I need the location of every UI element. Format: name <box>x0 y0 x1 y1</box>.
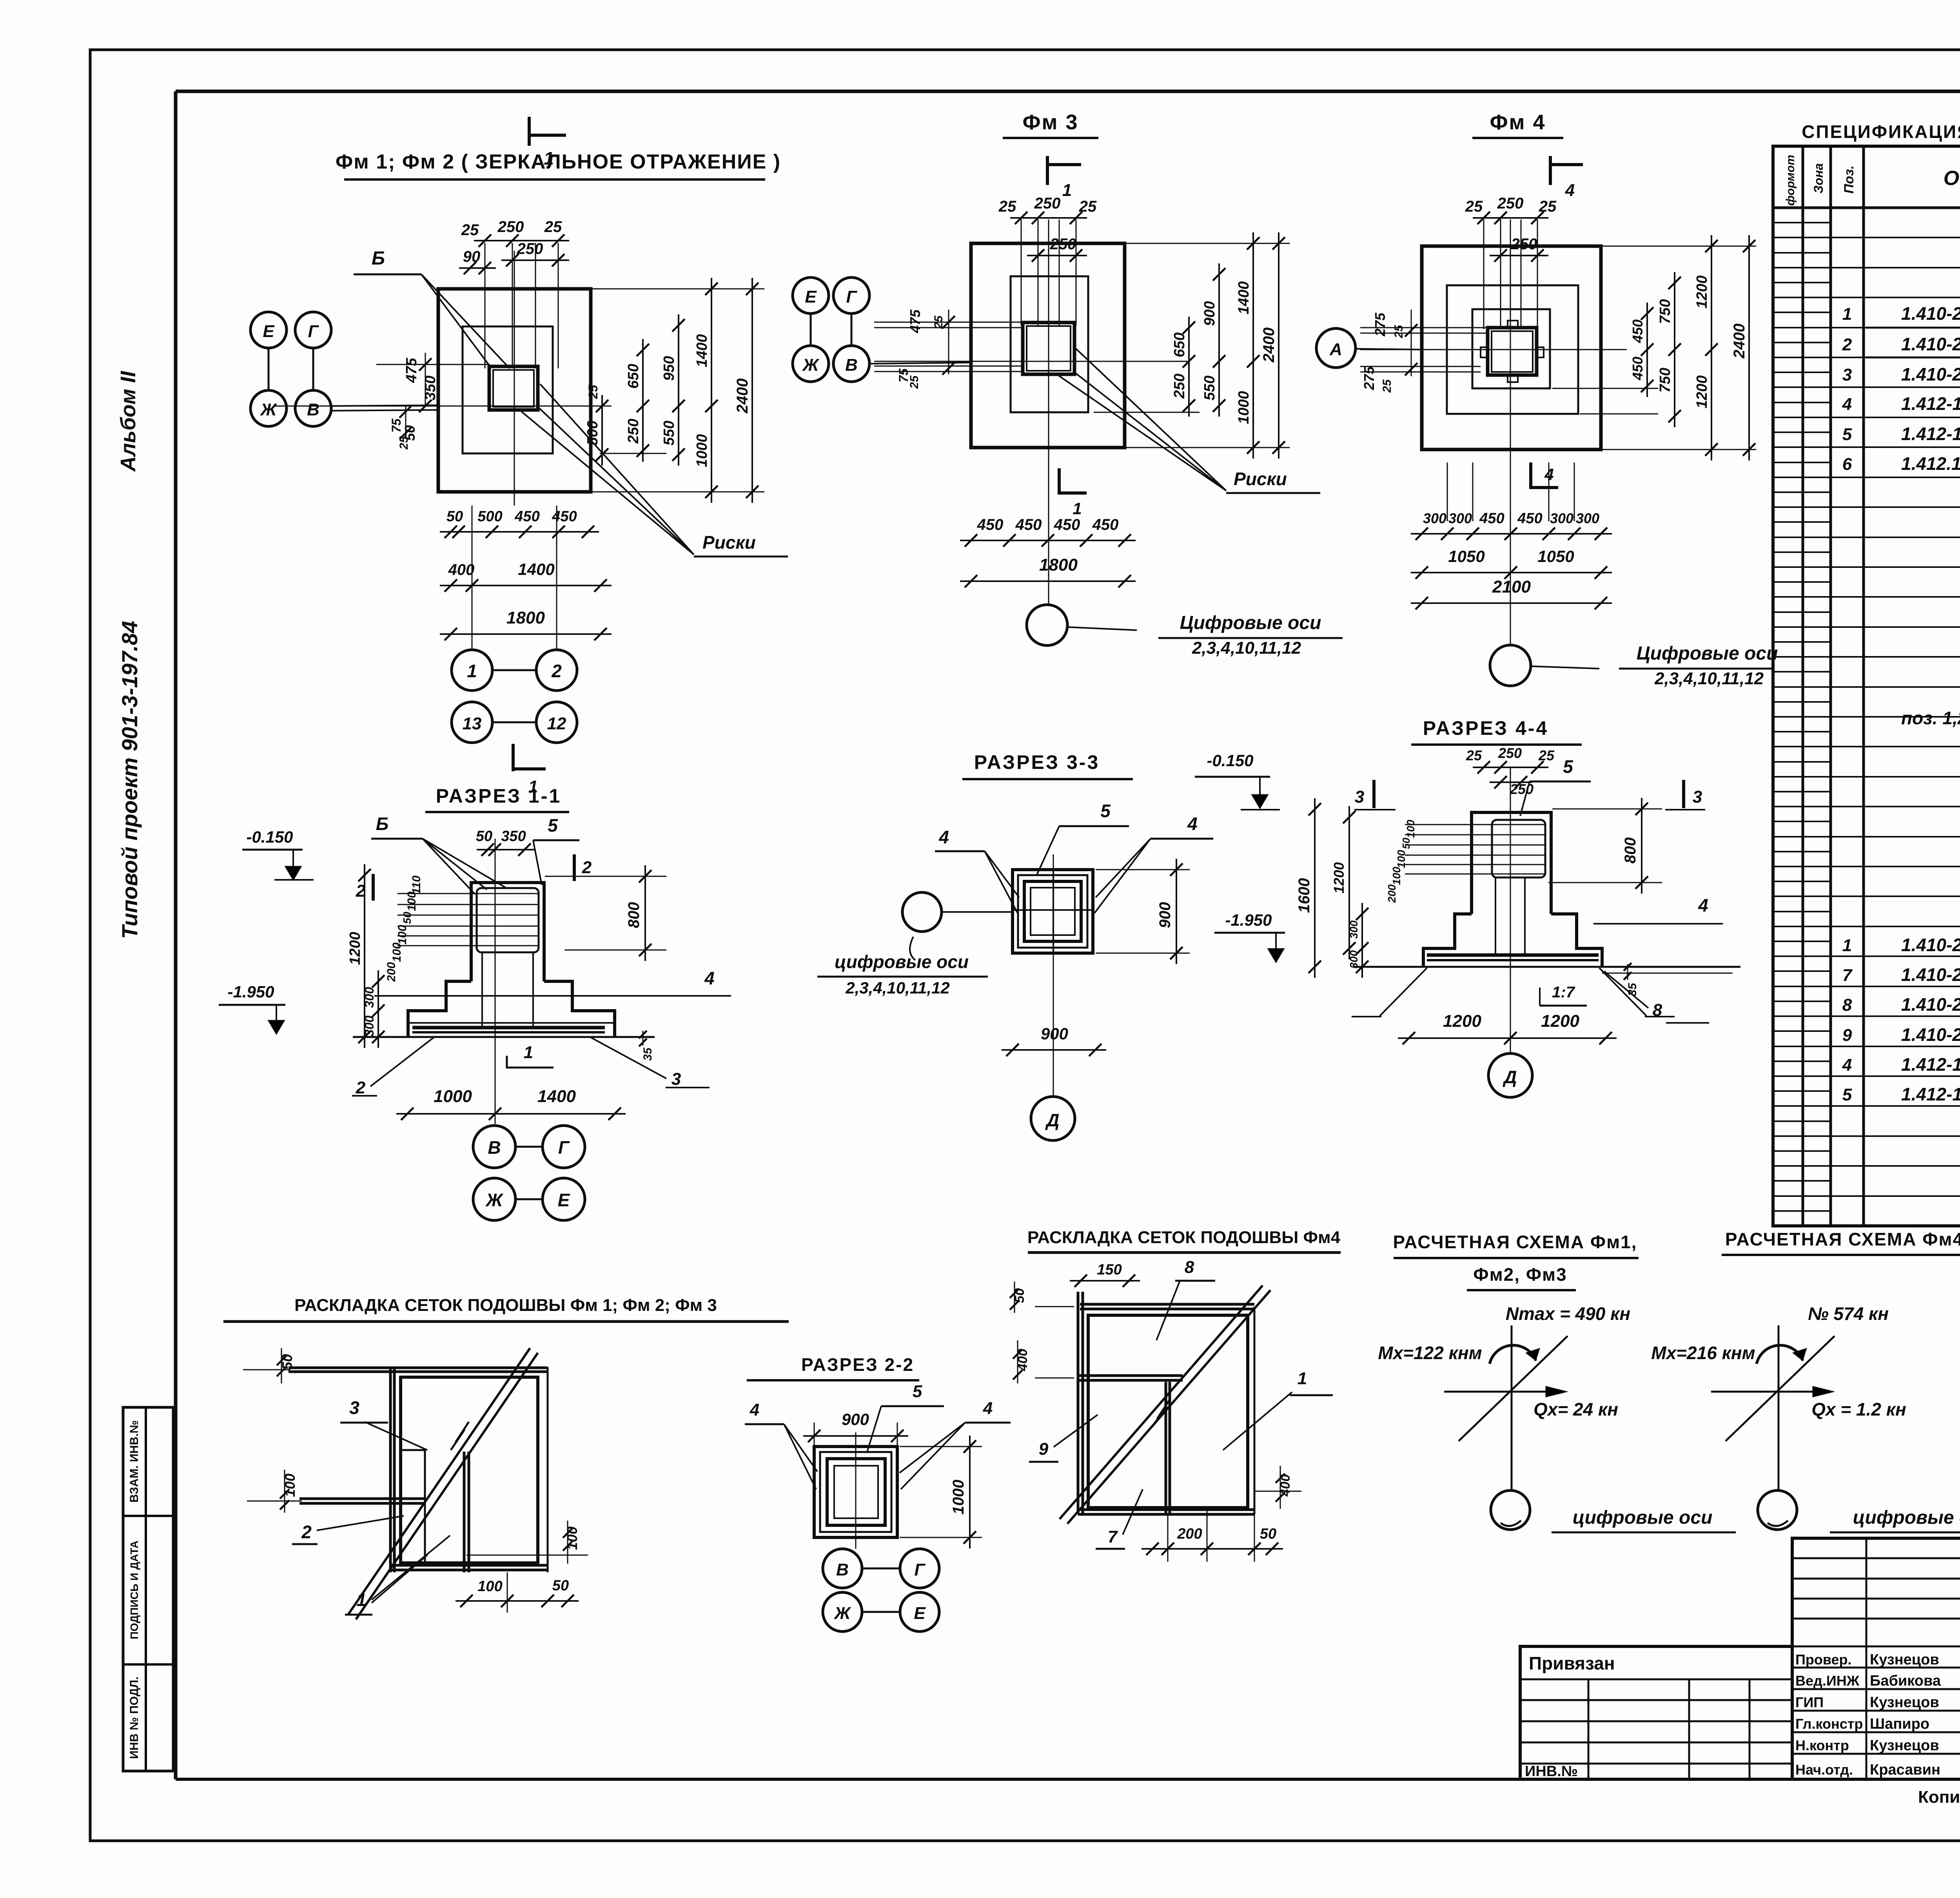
plan Fm4 bottom axis circle <box>1490 643 1778 688</box>
title block left part Privyazan <box>1520 1646 1792 1780</box>
plan Fm3 section mark top <box>1047 156 1081 200</box>
svg-text:25: 25 <box>586 384 600 399</box>
section 4-4 rebar cage <box>1405 820 1545 954</box>
section 1-1 rebar cage <box>397 888 539 1026</box>
calc scheme Fm4 title <box>1722 1229 1960 1255</box>
svg-text:3: 3 <box>671 1070 681 1089</box>
svg-text:100: 100 <box>1405 819 1417 838</box>
svg-text:9: 9 <box>1842 1026 1852 1045</box>
svg-text:Г: Г <box>846 287 857 306</box>
svg-text:1400: 1400 <box>1236 281 1252 315</box>
svg-text:7: 7 <box>1842 966 1853 985</box>
plan Fm3 axes <box>874 219 1188 605</box>
section 3-3 leaders 4 <box>935 814 1213 913</box>
svg-text:450: 450 <box>552 508 577 525</box>
svg-text:Г: Г <box>914 1560 926 1579</box>
svg-text:Нач.отд.: Нач.отд. <box>1795 1762 1853 1778</box>
svg-text:Н.контр: Н.контр <box>1795 1737 1849 1753</box>
svg-text:Ж: Ж <box>485 1190 504 1210</box>
mesh layout Fm1-3 break line <box>348 1348 538 1619</box>
stamp strip boxes <box>123 1407 173 1771</box>
svg-text:450: 450 <box>977 516 1004 533</box>
plan Fm1 section mark 1 top <box>529 117 566 169</box>
svg-text:Поз.: Поз. <box>1842 165 1857 194</box>
svg-text:-0.150: -0.150 <box>246 828 293 846</box>
svg-text:250: 250 <box>1511 236 1537 253</box>
svg-text:1400: 1400 <box>537 1087 576 1106</box>
plan Fm1 column <box>489 366 538 410</box>
svg-text:Mx=122 кнм: Mx=122 кнм <box>1378 1343 1482 1363</box>
svg-text:13: 13 <box>463 714 482 733</box>
plan Fm3 column <box>1023 323 1074 374</box>
svg-text:Е: Е <box>914 1604 926 1623</box>
section 1-1 leader 1 bracket <box>507 1043 554 1068</box>
svg-text:1: 1 <box>544 148 554 169</box>
svg-text:300: 300 <box>362 987 376 1008</box>
svg-text:4: 4 <box>983 1399 993 1418</box>
calc scheme Fm1-3 title <box>1393 1232 1639 1290</box>
plan Fm1 axes <box>274 251 612 506</box>
calc scheme Fm1-3 diagram <box>1378 1303 1736 1532</box>
svg-text:Кузнецов: Кузнецов <box>1870 1737 1939 1754</box>
svg-text:200: 200 <box>1177 1526 1202 1542</box>
svg-text:1: 1 <box>356 1590 367 1610</box>
svg-text:5: 5 <box>1842 1085 1852 1104</box>
svg-text:РАСКЛАДКА СЕТОК ПОДОШВЫ Фм4: РАСКЛАДКА СЕТОК ПОДОШВЫ Фм4 <box>1027 1228 1341 1247</box>
section 1-1 level -1.950 <box>219 983 285 1034</box>
section 1-1 marks 2 <box>356 854 592 901</box>
svg-text:Типовой проект 901-3-197.84: Типовой проект 901-3-197.84 <box>117 621 142 939</box>
svg-text:50: 50 <box>552 1577 569 1594</box>
mesh layout Fm1-3 sheet 3 outline <box>289 1367 548 1572</box>
svg-text:50: 50 <box>446 508 463 525</box>
plan Fm3 anchor lines <box>1021 219 1076 325</box>
svg-text:4: 4 <box>1544 465 1553 484</box>
svg-text:Шапиро: Шапиро <box>1870 1716 1929 1732</box>
svg-text:25: 25 <box>998 198 1016 215</box>
svg-text:5: 5 <box>548 815 558 836</box>
svg-text:1.412-1/77: 1.412-1/77 <box>1901 1054 1960 1075</box>
section 3-3 bottom dim 900 <box>1002 1024 1106 1056</box>
mesh layout Fm1-3 leaders <box>292 1398 450 1615</box>
svg-text:25: 25 <box>1465 198 1483 215</box>
svg-text:50: 50 <box>1400 838 1412 849</box>
mesh layout Fm1-3 inner bars <box>299 1367 548 1572</box>
svg-text:25: 25 <box>1381 379 1394 393</box>
svg-text:2,3,4,10,11,12: 2,3,4,10,11,12 <box>1192 638 1301 658</box>
svg-text:Б: Б <box>376 814 389 834</box>
mesh layout Fm1-3 dims <box>243 1348 588 1613</box>
svg-text:100: 100 <box>396 925 409 944</box>
svg-text:Mx=216 кнм: Mx=216 кнм <box>1651 1343 1755 1363</box>
section 3-3 leader 5 <box>1037 801 1129 875</box>
svg-text:2400: 2400 <box>734 379 751 414</box>
svg-text:25: 25 <box>1539 198 1557 215</box>
section 4-4 steps and slab <box>1352 914 1740 973</box>
plan Fm1 middle step <box>463 326 553 453</box>
svg-text:Обозначение: Обозначение <box>1944 167 1960 190</box>
svg-text:Бабикова: Бабикова <box>1870 1673 1941 1689</box>
svg-text:1.412.1-4.060: 1.412.1-4.060 <box>1901 453 1960 474</box>
svg-text:1200: 1200 <box>347 932 363 965</box>
section 2-2 axis <box>855 1432 857 1549</box>
svg-text:2100: 2100 <box>1492 577 1531 596</box>
svg-text:ВЗАМ. ИНВ.№: ВЗАМ. ИНВ.№ <box>128 1420 141 1503</box>
svg-text:1200: 1200 <box>1443 1012 1481 1031</box>
svg-text:200: 200 <box>385 962 398 982</box>
svg-text:100: 100 <box>390 943 403 962</box>
svg-text:1.410-2: 1.410-2 <box>1901 935 1960 955</box>
plan Fm4 title <box>1472 111 1563 138</box>
svg-text:25: 25 <box>1466 747 1482 763</box>
section 4-4 slope label 1:7 <box>1540 984 1587 1006</box>
svg-text:450: 450 <box>1479 510 1504 527</box>
svg-text:№ 574 кн: № 574 кн <box>1808 1303 1889 1324</box>
svg-text:Кузнецов: Кузнецов <box>1870 1694 1939 1711</box>
svg-text:Копир:зал: Коршунова: Копир:зал: Коршунова <box>1918 1787 1960 1807</box>
svg-text:Б: Б <box>372 248 385 269</box>
section 1-1 vertical axis <box>495 839 496 1124</box>
svg-text:300: 300 <box>1576 510 1599 526</box>
svg-text:В: В <box>845 355 858 375</box>
calc scheme Fm4 diagram <box>1651 1303 1960 1532</box>
svg-text:8: 8 <box>1842 995 1852 1015</box>
svg-text:цифровые оси: цифровые оси <box>1853 1507 1960 1528</box>
svg-text:1200: 1200 <box>1694 375 1710 409</box>
svg-text:Ж: Ж <box>260 400 278 419</box>
svg-text:2: 2 <box>356 1078 366 1097</box>
section 4-4 dim 35 <box>1624 963 1639 996</box>
section 1-1 leader 3 <box>590 1037 710 1089</box>
section 1-1 level -0.150 <box>242 828 314 880</box>
spec table title <box>1802 121 1960 142</box>
section 4-4 axis circle D <box>1488 1053 1532 1097</box>
mesh layout Fm1-3 title <box>223 1296 789 1322</box>
spec table grid <box>1773 146 1960 1226</box>
mesh layout Fm4 break line <box>1060 1285 1270 1524</box>
plan Fm4 inner step <box>1472 309 1550 388</box>
svg-text:В: В <box>836 1560 849 1579</box>
svg-text:1000: 1000 <box>1236 391 1252 424</box>
svg-text:75: 75 <box>389 418 403 433</box>
svg-text:2: 2 <box>301 1522 312 1542</box>
svg-text:2,3,4,10,11,12: 2,3,4,10,11,12 <box>845 979 949 997</box>
mesh layout Fm4 sheet outlines <box>1078 1292 1254 1514</box>
section 4-4 level -0.150 <box>1195 751 1280 810</box>
plan Fm4 footing outline <box>1422 246 1601 450</box>
mesh layout Fm4 title <box>1027 1228 1341 1253</box>
plan Fm4 left beam lines <box>1360 328 1488 372</box>
svg-text:7: 7 <box>1108 1527 1118 1546</box>
svg-text:4: 4 <box>750 1400 759 1419</box>
svg-text:Qx = 1.2 кн: Qx = 1.2 кн <box>1811 1399 1906 1419</box>
svg-text:650: 650 <box>625 364 642 388</box>
plan Fm3 bottom dims <box>960 516 1136 587</box>
svg-text:35: 35 <box>641 1047 654 1061</box>
plan Fm4 column with tabs <box>1481 321 1544 382</box>
svg-text:1200: 1200 <box>1541 1012 1579 1031</box>
svg-text:1.410-2: 1.410-2 <box>1901 334 1960 354</box>
section 2-2 right dim 1000 <box>900 1436 982 1548</box>
svg-text:5: 5 <box>1563 756 1573 777</box>
svg-text:50: 50 <box>1260 1526 1276 1542</box>
svg-text:550: 550 <box>1201 375 1218 400</box>
svg-text:1000: 1000 <box>434 1087 472 1106</box>
plan Fm3 left small dims <box>897 309 955 389</box>
section 1-1 pedestal outline <box>471 883 544 981</box>
svg-text:1: 1 <box>1842 936 1852 955</box>
section 1-1 leader 5 <box>533 815 579 885</box>
svg-text:800: 800 <box>1622 838 1639 864</box>
svg-text:Г: Г <box>308 322 319 341</box>
svg-text:-1.950: -1.950 <box>1225 911 1272 929</box>
svg-text:250: 250 <box>1497 195 1524 212</box>
plan Fm4 top dims <box>1465 195 1557 262</box>
svg-text:1.410-2: 1.410-2 <box>1901 364 1960 384</box>
spec rows Fm4 group <box>1842 843 1960 1217</box>
spec table headers <box>1784 154 1960 206</box>
plan Fm3 title <box>1003 111 1098 138</box>
svg-text:100: 100 <box>1390 867 1403 885</box>
svg-text:Фм 1; Фм 2 ( ЗЕРКАЛЬНОЕ ОТРАЖ: Фм 1; Фм 2 ( ЗЕРКАЛЬНОЕ ОТРАЖЕНИЕ ) <box>336 150 781 173</box>
svg-text:1.412-1/77: 1.412-1/77 <box>1901 393 1960 414</box>
svg-text:А: А <box>1329 340 1342 359</box>
svg-text:1: 1 <box>1298 1369 1307 1388</box>
svg-text:Д: Д <box>1045 1110 1059 1130</box>
svg-text:ИНВ.№: ИНВ.№ <box>1525 1763 1578 1780</box>
plan Fm4 section mark bottom <box>1531 462 1558 489</box>
svg-text:8: 8 <box>1653 1001 1662 1020</box>
svg-text:300: 300 <box>1550 510 1573 526</box>
svg-text:3: 3 <box>1693 787 1702 807</box>
svg-text:1: 1 <box>1073 499 1082 518</box>
svg-text:Риски: Риски <box>702 532 756 553</box>
svg-text:Вед.ИНЖ: Вед.ИНЖ <box>1795 1673 1860 1689</box>
section 2-2 axis circles <box>823 1549 939 1632</box>
svg-text:1200: 1200 <box>1331 862 1347 894</box>
svg-text:4: 4 <box>1698 895 1708 915</box>
svg-text:2: 2 <box>1842 335 1852 354</box>
svg-text:Фм 4: Фм 4 <box>1490 111 1546 134</box>
svg-text:4: 4 <box>1187 814 1198 834</box>
svg-text:4: 4 <box>1842 395 1852 414</box>
svg-text:100: 100 <box>477 1578 502 1595</box>
svg-text:Гл.констр: Гл.констр <box>1795 1716 1863 1732</box>
plan Fm4 anchor lines <box>1484 219 1537 329</box>
svg-text:Зона: Зона <box>1811 163 1826 193</box>
plan Fm3 middle step <box>1011 276 1088 412</box>
svg-text:35: 35 <box>1626 983 1639 996</box>
svg-text:1800: 1800 <box>506 608 545 627</box>
svg-text:1400: 1400 <box>694 334 710 368</box>
svg-text:РАЗРЕЗ 3-3: РАЗРЕЗ 3-3 <box>974 751 1100 773</box>
section 4-4 leader 8 <box>1604 971 1709 1023</box>
svg-text:5: 5 <box>1842 425 1852 444</box>
svg-text:450: 450 <box>1630 319 1646 343</box>
svg-text:1.410-2: 1.410-2 <box>1901 1024 1960 1045</box>
svg-text:ГИП: ГИП <box>1795 1694 1824 1710</box>
svg-text:2400: 2400 <box>1731 324 1748 359</box>
svg-text:1800: 1800 <box>1039 555 1078 575</box>
svg-text:2400: 2400 <box>1260 328 1278 363</box>
stamp strip labels <box>128 1420 141 1759</box>
svg-text:300: 300 <box>1348 920 1360 939</box>
svg-text:2: 2 <box>551 661 562 681</box>
svg-text:1400: 1400 <box>518 560 554 578</box>
plan Fm3 right dim tiers <box>1094 232 1290 459</box>
plan Fm1 footing outline <box>438 289 591 492</box>
svg-text:4: 4 <box>1842 1055 1852 1075</box>
plan Fm1 axis circles 1 2 13 12 <box>452 650 577 743</box>
svg-text:900: 900 <box>1041 1024 1068 1043</box>
section 1-1 title <box>425 785 569 812</box>
section 2-2 leader 5 <box>867 1382 944 1452</box>
svg-text:1: 1 <box>1062 181 1072 200</box>
plan Fm1 left dims <box>376 353 490 450</box>
section 1-1 dim 35 <box>639 1031 654 1061</box>
svg-text:100: 100 <box>1395 850 1407 868</box>
svg-text:Цифровые оси: Цифровые оси <box>1180 613 1321 633</box>
section 2-2 title <box>747 1354 919 1380</box>
svg-text:4: 4 <box>704 968 715 988</box>
svg-text:300: 300 <box>362 1015 376 1037</box>
svg-text:цифровые оси: цифровые оси <box>1573 1507 1713 1528</box>
svg-text:450: 450 <box>1054 516 1080 533</box>
svg-text:1000: 1000 <box>694 434 710 468</box>
plan Fm3 footing outline <box>971 243 1125 448</box>
title block signature table <box>1792 1538 1960 1779</box>
svg-text:450: 450 <box>1517 510 1542 527</box>
svg-text:450: 450 <box>1092 516 1119 533</box>
plan Fm1 anchor bolt lines <box>485 243 558 368</box>
plan Fm1 bottom dims <box>440 506 612 650</box>
svg-text:РАЗРЕЗ 2-2: РАЗРЕЗ 2-2 <box>801 1354 914 1375</box>
svg-text:450: 450 <box>1630 357 1646 381</box>
section 4-4 bottom dims <box>1398 1012 1617 1044</box>
plan Fm3 section mark bottom <box>1059 468 1087 518</box>
section 4-4 left dims <box>1296 798 1417 978</box>
svg-text:800: 800 <box>625 902 642 928</box>
svg-text:-0.150: -0.150 <box>1207 751 1253 770</box>
svg-text:РАСЧЕТНАЯ СХЕМА Фм1,: РАСЧЕТНАЯ СХЕМА Фм1, <box>1393 1232 1637 1252</box>
section 1-1 axis circles V G Zh E <box>473 1126 585 1220</box>
svg-text:1: 1 <box>467 661 477 681</box>
svg-text:450: 450 <box>1015 516 1042 533</box>
section 2-2 leaders 4 <box>745 1399 1011 1489</box>
svg-text:6: 6 <box>1842 455 1852 474</box>
svg-text:Фм 3: Фм 3 <box>1022 111 1078 134</box>
svg-text:Альбом II: Альбом II <box>116 371 140 472</box>
svg-text:Риски: Риски <box>1234 469 1287 489</box>
svg-text:Ж: Ж <box>802 355 820 375</box>
spec rows Fm1;Fm2 group <box>1842 212 1960 593</box>
svg-text:1200: 1200 <box>1694 276 1710 309</box>
svg-text:25: 25 <box>1538 747 1555 763</box>
spec rows Fm3 group <box>1901 633 1960 792</box>
plan Fm1 section mark 1 bottom <box>513 744 546 796</box>
plan Fm1 Fm2 title <box>336 150 781 179</box>
section 3-3 mesh basket squares <box>1013 870 1093 953</box>
section 1-1 top dims 50 350 <box>476 828 535 856</box>
svg-text:Д: Д <box>1502 1067 1517 1087</box>
svg-text:В: В <box>488 1137 501 1158</box>
mesh layout Fm4 leaders <box>1029 1258 1333 1549</box>
svg-text:350: 350 <box>422 375 439 400</box>
svg-text:1.410-2: 1.410-2 <box>1901 303 1960 324</box>
svg-text:4: 4 <box>1565 181 1575 200</box>
plan Fm4 left small dims <box>1361 310 1417 393</box>
svg-text:Г: Г <box>558 1137 570 1158</box>
title block notes below <box>1918 1787 1960 1840</box>
svg-text:90: 90 <box>463 248 481 265</box>
section 1-1 bottom dims <box>396 1087 626 1120</box>
svg-text:РАЗРЕЗ 4-4: РАЗРЕЗ 4-4 <box>1423 717 1549 739</box>
svg-text:900: 900 <box>1156 902 1174 928</box>
plan Fm1 top dims 25 250 25 <box>459 218 569 274</box>
svg-text:РАСЧЕТНАЯ СХЕМА Фм4: РАСЧЕТНАЯ СХЕМА Фм4 <box>1725 1229 1960 1249</box>
svg-text:Кузнецов: Кузнецов <box>1870 1651 1939 1668</box>
svg-text:9: 9 <box>1039 1439 1049 1459</box>
plan Fm4 section mark top <box>1550 156 1583 200</box>
svg-text:500: 500 <box>477 508 502 525</box>
svg-text:8: 8 <box>1185 1258 1194 1277</box>
svg-text:2: 2 <box>582 858 592 877</box>
svg-text:1050: 1050 <box>1448 547 1485 566</box>
section 1-1 leader B <box>371 814 506 894</box>
svg-text:цифровые оси: цифровые оси <box>835 952 969 972</box>
svg-text:1000: 1000 <box>950 1480 967 1515</box>
plan Fm1 riski label and leaders <box>521 384 788 557</box>
svg-text:1:7: 1:7 <box>1552 984 1575 1001</box>
svg-text:250: 250 <box>517 240 543 257</box>
plan Fm3 top dims <box>998 195 1097 262</box>
section 4-4 top dims <box>1466 745 1555 797</box>
section 1-1 leader 4 <box>374 968 731 996</box>
svg-text:50: 50 <box>401 912 413 924</box>
svg-text:1600: 1600 <box>1296 878 1313 913</box>
svg-text:450: 450 <box>514 508 539 525</box>
svg-text:1.412-1/77: 1.412-1/77 <box>1901 424 1960 444</box>
svg-text:350: 350 <box>501 828 526 845</box>
svg-text:1050: 1050 <box>1537 547 1574 566</box>
plan Fm4 right dim tiers <box>1552 235 1756 460</box>
plan Fm4 middle step <box>1447 285 1578 414</box>
section 4-4 pedestal outline <box>1472 812 1551 914</box>
plan Fm1 right dim tiers <box>584 278 764 503</box>
left margin text Album II <box>116 371 140 472</box>
svg-text:СПЕЦИФИКАЦИЯ ЭЛЕМЕНТОВ МОНОЛИТ: СПЕЦИФИКАЦИЯ ЭЛЕМЕНТОВ МОНОЛИТНОЙ КОНСТР… <box>1802 121 1960 142</box>
svg-text:750: 750 <box>1657 368 1673 392</box>
svg-text:3: 3 <box>349 1398 359 1418</box>
section 1-1 leader 2 bottom <box>352 1037 434 1097</box>
svg-text:250: 250 <box>1050 236 1076 253</box>
svg-text:25: 25 <box>461 221 479 239</box>
plan Fm3 axis circles E G Zh V <box>793 277 971 382</box>
plan Fm1 axis circles E G Zh V <box>250 312 438 426</box>
svg-text:110: 110 <box>410 876 423 894</box>
svg-text:Провер.: Провер. <box>1795 1651 1852 1668</box>
plan Fm4 axes <box>1360 219 1627 645</box>
svg-text:Qx= 24 кн: Qx= 24 кн <box>1534 1399 1618 1419</box>
section 3-3 axis circle D <box>1031 1097 1075 1140</box>
svg-text:ПОДПИСЬ И ДАТА: ПОДПИСЬ И ДАТА <box>128 1541 140 1639</box>
svg-text:475: 475 <box>907 309 923 334</box>
svg-text:Фм2, Фм3: Фм2, Фм3 <box>1473 1264 1567 1285</box>
svg-text:Привязан: Привязан <box>1529 1653 1615 1673</box>
svg-text:Nmax = 490 кн: Nmax = 490 кн <box>1506 1303 1630 1324</box>
svg-text:4: 4 <box>938 827 949 847</box>
svg-text:Е: Е <box>263 322 275 341</box>
